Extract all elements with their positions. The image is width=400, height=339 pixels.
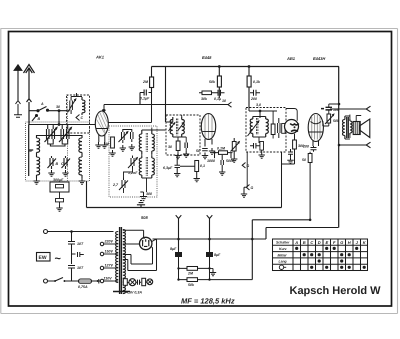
tuning coil L4b bbox=[79, 155, 82, 178]
svg-text:6,3µF: 6,3µF bbox=[163, 166, 173, 170]
transformer primary winding bbox=[116, 232, 119, 283]
lamp coupling cap bbox=[136, 280, 141, 285]
grounds under osc caps bbox=[120, 145, 126, 151]
V2 grounds bbox=[202, 153, 208, 159]
cathode cap 100 bbox=[302, 145, 317, 152]
svg-text:127V: 127V bbox=[105, 264, 114, 268]
IF1 resistor bbox=[168, 141, 180, 151]
tuning box grounds bbox=[48, 170, 54, 176]
svg-text:B: B bbox=[303, 240, 306, 245]
wire cathode down bbox=[309, 152, 311, 220]
svg-text:H: H bbox=[348, 240, 351, 245]
transformer secondary winding bbox=[123, 230, 126, 294]
connector Y1 bbox=[176, 215, 182, 250]
lamp series resistor bbox=[123, 279, 129, 286]
svg-text:8µF: 8µF bbox=[170, 247, 177, 251]
speaker cone bbox=[360, 119, 370, 138]
tuning coil L4a bbox=[79, 135, 82, 155]
node 30 junction bbox=[56, 105, 60, 112]
svg-text:150V: 150V bbox=[105, 250, 114, 254]
IF1 core dashes bbox=[176, 119, 177, 136]
mains series cap bbox=[72, 252, 84, 257]
mains cap 10T upper bbox=[68, 232, 84, 255]
IF1 coil arrows bbox=[169, 123, 184, 131]
svg-text:EW: EW bbox=[39, 255, 47, 261]
IF2 secondary return wire bbox=[246, 152, 247, 187]
svg-text:300µF: 300µF bbox=[53, 178, 64, 182]
primary tap terminal 127V bbox=[100, 264, 118, 270]
capacitor 200 screen2 bbox=[250, 90, 260, 101]
svg-text:A: A bbox=[294, 240, 298, 245]
junction mains bbox=[70, 230, 73, 233]
svg-text:2,7: 2,7 bbox=[112, 183, 119, 187]
trimmer D bbox=[48, 156, 59, 169]
primary tap terminal 110V bbox=[100, 277, 118, 283]
svg-text:C: C bbox=[310, 240, 313, 245]
svg-text:30: 30 bbox=[168, 145, 172, 149]
svg-text:AB1: AB1 bbox=[286, 56, 296, 61]
electrolytic cap 8uF a bbox=[170, 247, 182, 267]
output transformer core bbox=[347, 117, 349, 138]
IF transformer 1 dashed box bbox=[166, 115, 200, 155]
mixer grid top cap bbox=[102, 109, 106, 112]
IF1 primary coil bbox=[170, 117, 173, 137]
wire IF2 to AB1 bbox=[286, 109, 297, 121]
coupling cap under IF1 bbox=[163, 155, 195, 171]
oscillator block dotted box bbox=[109, 126, 157, 197]
tuning coil L3a bbox=[37, 135, 40, 155]
svg-text:Kurz: Kurz bbox=[279, 247, 287, 251]
wire node30 down bbox=[58, 111, 60, 125]
band switch table bbox=[273, 239, 368, 271]
IF2 wires bbox=[253, 111, 273, 143]
connector G chevron bbox=[242, 163, 249, 169]
schematic frame border bbox=[9, 32, 392, 307]
primary tap terminal 150V bbox=[100, 250, 118, 256]
junction dots on B+ bbox=[177, 238, 180, 241]
wire coil tops bbox=[67, 93, 82, 111]
AB1 cap to ground bbox=[288, 149, 293, 157]
svg-text:0,1µ: 0,1µ bbox=[214, 97, 221, 101]
osc trimmer with arrow bbox=[128, 156, 138, 176]
ground on HT bus bbox=[137, 201, 145, 208]
svg-text:30: 30 bbox=[28, 149, 32, 153]
svg-text:C: C bbox=[61, 162, 64, 166]
power transformer base plate bbox=[113, 291, 130, 293]
IF transformer 2 dashed box bbox=[246, 108, 286, 153]
ground under 1M bbox=[109, 150, 115, 156]
filter resistor 50k lower bbox=[179, 278, 253, 287]
svg-text:4,5V 0,3A: 4,5V 0,3A bbox=[125, 291, 142, 295]
decoupling resistor 2 bbox=[56, 192, 64, 205]
svg-text:A: A bbox=[40, 102, 44, 106]
primary tap terminal 220V bbox=[100, 240, 118, 246]
lamp shunt resistor bbox=[142, 278, 147, 285]
IF1 capacitor bbox=[185, 143, 187, 149]
power transformer core bbox=[120, 227, 122, 294]
grounds under coupling bbox=[174, 171, 180, 177]
IF2 bottom resistor bbox=[260, 142, 264, 153]
svg-text:~: ~ bbox=[55, 253, 62, 265]
svg-text:10: 10 bbox=[222, 99, 226, 103]
svg-text:10T: 10T bbox=[77, 242, 84, 246]
IF1 wires and grounds bbox=[166, 115, 187, 153]
wires in tuning box bbox=[37, 125, 83, 147]
grid cap E443H bbox=[321, 107, 340, 112]
wire switch to antenna coil box bbox=[48, 110, 68, 112]
capacitor 0,1uF screen bbox=[214, 90, 225, 101]
ground mid filter bbox=[210, 268, 217, 275]
svg-text:50k: 50k bbox=[209, 80, 216, 84]
junction cathode on return bbox=[309, 219, 312, 222]
output transformer secondary loops bbox=[350, 119, 352, 135]
svg-text:E: E bbox=[326, 240, 329, 245]
pilot connector circle bbox=[147, 279, 153, 285]
connector Y2 bbox=[207, 215, 213, 250]
dial lamp bbox=[125, 279, 142, 295]
trimmer C2 bbox=[61, 156, 70, 169]
mains switch bbox=[48, 278, 66, 283]
output tube V3 E443H bbox=[308, 114, 323, 147]
osc trimmer 2 bbox=[112, 178, 128, 191]
svg-text:50: 50 bbox=[196, 149, 200, 153]
antenna 1 bbox=[14, 65, 22, 118]
AVC grid wire bbox=[104, 99, 232, 111]
svg-text:8µF: 8µF bbox=[214, 253, 221, 257]
resistor 0,1M diode load bbox=[207, 147, 234, 164]
dashed vertical inside antenna box bbox=[67, 95, 69, 181]
switch B bbox=[32, 115, 41, 122]
wire R to cap bbox=[149, 88, 152, 93]
osc core dashes bbox=[146, 133, 147, 152]
svg-text:3,0: 3,0 bbox=[256, 103, 261, 107]
capacitor 0,1uF grid coupling bbox=[140, 90, 150, 105]
resistor right of IF1 bbox=[195, 161, 205, 176]
mixer cathode grounds bbox=[95, 142, 101, 148]
ground under pot bbox=[231, 156, 237, 162]
osc cap 2 bbox=[131, 129, 134, 142]
svg-text:G: G bbox=[340, 240, 343, 245]
osc wires bbox=[123, 128, 166, 194]
svg-text:30: 30 bbox=[56, 105, 60, 109]
svg-text:508: 508 bbox=[141, 215, 148, 220]
svg-text:MF = 128,5 kHz: MF = 128,5 kHz bbox=[181, 297, 235, 306]
svg-text:Schalter: Schalter bbox=[276, 241, 290, 245]
resistor 2M bbox=[142, 77, 154, 88]
svg-text:E448: E448 bbox=[202, 55, 212, 60]
cathode resistor 50k bbox=[302, 154, 312, 163]
IF2 core dashes bbox=[257, 118, 258, 135]
svg-text:0,1M: 0,1M bbox=[217, 147, 226, 151]
junction dots filter bbox=[177, 267, 179, 269]
wire bus corner down to R 2M bbox=[151, 67, 153, 78]
osc lower core dashes bbox=[146, 157, 147, 176]
wires filter bbox=[179, 267, 210, 280]
wire bus vertical to osc coils bbox=[165, 67, 167, 123]
svg-text:D: D bbox=[318, 240, 321, 245]
wire mixer plate to IF1 bbox=[108, 93, 152, 123]
rectifier return staircase bbox=[252, 220, 338, 239]
tuning coil L3b bbox=[37, 155, 40, 178]
electrolytic cap 8uF b bbox=[206, 250, 221, 267]
svg-text:200: 200 bbox=[250, 97, 257, 101]
svg-text:C: C bbox=[81, 116, 84, 120]
mains cap 10T lower bbox=[68, 254, 84, 282]
osc padder cap with arrow bbox=[119, 129, 128, 143]
resistor 30k horizontal bbox=[199, 91, 216, 101]
output transformer primary loops bbox=[343, 116, 345, 139]
svg-text:B: B bbox=[56, 162, 59, 166]
svg-text:AK1: AK1 bbox=[95, 55, 105, 60]
screen resistor 50k bbox=[209, 65, 221, 98]
B+ wire from rectifier bbox=[153, 220, 267, 280]
osc coil La bbox=[139, 130, 142, 154]
heater lamp wire bottom bbox=[122, 282, 125, 284]
wire tuning box bottom to bus bbox=[86, 181, 88, 208]
rectifier tube 508 bbox=[140, 237, 152, 249]
speaker feed wires bbox=[345, 115, 361, 140]
svg-text:0,1µF: 0,1µF bbox=[140, 97, 150, 101]
junction HT grid bbox=[338, 103, 341, 106]
svg-text:Kapsch Herold W: Kapsch Herold W bbox=[290, 285, 382, 297]
rectifier tap staircase wire bbox=[123, 247, 153, 265]
main HT vertical bbox=[338, 67, 340, 228]
IF2 feed wire bbox=[249, 107, 277, 118]
fuse 0,75A bbox=[66, 279, 92, 289]
junction on grid line bbox=[58, 123, 61, 126]
IF1 secondary coil bbox=[182, 117, 185, 137]
connector G2 with ground bbox=[241, 185, 254, 198]
svg-text:0,1k: 0,1k bbox=[253, 80, 261, 84]
connector C chevron bbox=[76, 115, 84, 121]
svg-text:30k: 30k bbox=[201, 97, 208, 101]
rectifier output to B+ rail bbox=[152, 239, 157, 242]
tuning gang dotted box bbox=[26, 122, 90, 181]
band switch A bbox=[37, 102, 49, 112]
svg-text:50k: 50k bbox=[188, 283, 195, 287]
svg-text:200: 200 bbox=[302, 145, 309, 149]
IF2 primary coil bbox=[250, 117, 253, 138]
wire grid network bbox=[323, 104, 339, 126]
svg-text:10T: 10T bbox=[77, 266, 84, 270]
cap under 0,1M bbox=[221, 155, 223, 169]
svg-text:220V: 220V bbox=[104, 240, 114, 244]
grid resistor with arrow E443H bbox=[325, 114, 340, 124]
antenna coil L2 bbox=[82, 97, 85, 115]
HT bus horizontal bbox=[87, 207, 282, 209]
IF2 bottom cap bbox=[250, 143, 260, 149]
osc coil Ld lower bbox=[152, 156, 155, 178]
variable capacitor CV1 bbox=[45, 127, 57, 143]
antenna trimmer cap bbox=[68, 97, 76, 115]
svg-text:G: G bbox=[251, 186, 254, 190]
IF2 cap a bbox=[278, 118, 280, 138]
rectifier heater wire top bbox=[123, 230, 145, 238]
svg-text:Mittel: Mittel bbox=[278, 253, 287, 257]
ground under decoupling bbox=[56, 205, 62, 211]
mains terminal upper bbox=[44, 230, 48, 234]
svg-text:0,1: 0,1 bbox=[200, 164, 205, 168]
svg-text:300: 300 bbox=[146, 192, 152, 196]
field coil top wire with connector bbox=[330, 106, 371, 112]
svg-text:50: 50 bbox=[302, 158, 306, 162]
speaker magnet body bbox=[353, 122, 360, 135]
svg-text:0,75A: 0,75A bbox=[78, 285, 88, 289]
IF amp tube V2 E448 bbox=[201, 114, 215, 147]
field coil bottom wire with connector bbox=[338, 142, 371, 148]
svg-text:Lang: Lang bbox=[279, 260, 288, 264]
top bus wire bbox=[152, 66, 340, 68]
mains terminal lower bbox=[44, 279, 48, 283]
AB1 load resistor 300 bbox=[293, 134, 304, 156]
svg-text:1000: 1000 bbox=[207, 159, 215, 163]
resistor 1M osc bbox=[104, 137, 114, 148]
wire grid line to mixer bbox=[29, 124, 96, 126]
fuse to transformer wire bbox=[92, 279, 113, 284]
svg-text:B: B bbox=[38, 117, 41, 121]
IF2 damping resistor bbox=[271, 119, 275, 139]
IF2 tuning arrow bbox=[248, 121, 259, 136]
osc coil Lc lower bbox=[139, 156, 142, 178]
svg-text:E443H: E443H bbox=[313, 56, 325, 61]
wire antenna to band switch bbox=[29, 110, 37, 112]
rectifier anode wire bbox=[123, 243, 140, 245]
antenna coil dashed box bbox=[67, 95, 90, 133]
svg-text:2M: 2M bbox=[142, 80, 149, 84]
mixer tube V1 E448 bbox=[95, 111, 108, 142]
antenna 2 bbox=[24, 65, 35, 177]
svg-text:2M: 2M bbox=[187, 272, 194, 276]
screen resistor 0,1k bbox=[247, 65, 261, 107]
decoupling block box bbox=[50, 178, 69, 192]
AB1 duodiode tube bbox=[285, 120, 299, 134]
node 3,0 label bbox=[256, 103, 261, 112]
IF2 resistor b bbox=[282, 124, 285, 134]
IF2 secondary coil bbox=[266, 117, 269, 138]
phono symbol row label bbox=[279, 265, 286, 269]
wire AB1 down to bus bbox=[282, 152, 295, 208]
svg-text:110V: 110V bbox=[104, 277, 113, 281]
variable capacitor CV2 bbox=[59, 127, 71, 143]
volume pot with arrow bbox=[231, 138, 240, 156]
osc coil Lb bbox=[152, 130, 155, 154]
rectifier tap staircase wire 2 bbox=[123, 239, 157, 271]
filter resistor 2M bbox=[179, 267, 210, 276]
mains wire upper bbox=[48, 231, 114, 233]
ground osc bottom bbox=[140, 192, 152, 201]
EW voltage selector box bbox=[37, 253, 51, 262]
V2 cathode cap bbox=[196, 149, 208, 154]
